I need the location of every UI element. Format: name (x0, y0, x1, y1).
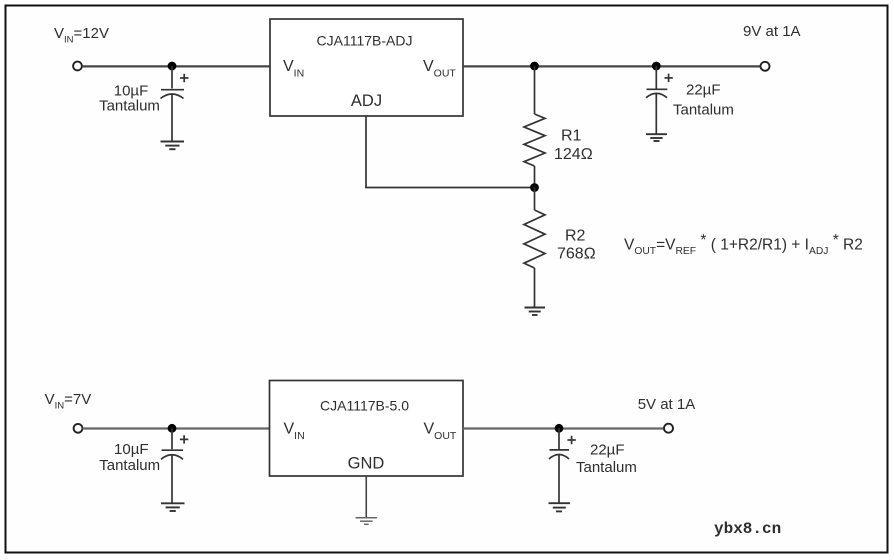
svg-text:Tantalum: Tantalum (673, 102, 734, 119)
wire: node C down to C2 (655, 66, 657, 89)
node A junction (C1 / input rail) (168, 62, 177, 71)
regulator U1 CJA1117B-ADJ (270, 19, 463, 116)
node C junction (C2 top) (652, 62, 661, 71)
svg-text:Tantalum: Tantalum (99, 98, 160, 115)
svg-text:GND: GND (348, 455, 385, 473)
pin label U1 ADJ (351, 92, 382, 110)
capacitor C1 10uF tantalum (161, 74, 189, 99)
wire: C4 to ground (558, 455, 560, 503)
node label "9V at 1A" (743, 23, 801, 40)
wire: C3 to ground (171, 455, 173, 503)
pin label U2 VIN (284, 420, 305, 442)
ground (C1) (161, 142, 185, 150)
value label R2 "R2 768ohm" (557, 228, 596, 263)
node F junction (C4 top) (555, 424, 564, 433)
pin label U2 GND (348, 455, 385, 473)
pin label U1 VOUT (423, 58, 456, 80)
svg-text:CJA1117B-ADJ: CJA1117B-ADJ (317, 32, 413, 48)
svg-text:5V at 1A: 5V at 1A (638, 396, 696, 413)
wire: node F down to C4 (558, 428, 560, 449)
ground (C3) (161, 503, 185, 511)
regulator U2 CJA1117B-5.0 (270, 381, 464, 477)
output terminal J2 (761, 62, 770, 71)
node E junction (C3 / input rail 2) (168, 424, 177, 433)
wire: C2 to ground (655, 94, 657, 134)
svg-text:R1: R1 (561, 128, 582, 145)
wire: C1 to ground (171, 95, 173, 142)
value label R1 "R1 124ohm" (554, 128, 593, 164)
ground (C4) (549, 503, 571, 511)
svg-text:R2: R2 (565, 228, 586, 245)
node B junction (R1 top) (530, 62, 539, 71)
svg-text:ybx8.cn: ybx8.cn (714, 520, 781, 538)
wire: input terminal to U1 VIN (82, 65, 270, 67)
svg-text:Tantalum: Tantalum (99, 457, 160, 474)
capacitor C2 22uF tantalum (646, 74, 673, 98)
wire: terminal J3 to U2 VIN (83, 427, 271, 429)
value label C2 "22uF Tantalum" (673, 82, 734, 119)
svg-text:Tantalum: Tantalum (576, 459, 637, 476)
wire: U2 GND pin down (365, 476, 367, 517)
resistor R2 768ohm (524, 210, 545, 268)
svg-text:ADJ: ADJ (351, 92, 382, 110)
resistor R1 124ohm (524, 114, 545, 166)
capacitor C3 10uF tantalum (161, 435, 188, 459)
input terminal J1 (73, 62, 82, 71)
ground (U2 GND) (356, 518, 377, 525)
wire: U1 VOUT to output terminal (463, 65, 761, 67)
svg-text:768Ω: 768Ω (557, 246, 596, 263)
wire: node D down to R2 (534, 188, 536, 211)
wire: junction A down to C1 (171, 66, 173, 89)
wire: R2 bottom to ground (534, 268, 536, 307)
svg-text:22µF: 22µF (686, 82, 721, 99)
formula VOUT=VREF*(1+R2/R1)+IADJ*R2 (624, 232, 863, 257)
capacitor C4 22uF tantalum (549, 436, 576, 459)
wire: ADJ horizontal to node D (365, 187, 534, 189)
wire: node E down to C3 (171, 428, 173, 449)
svg-text:CJA1117B-5.0: CJA1117B-5.0 (320, 398, 409, 414)
svg-text:9V at 1A: 9V at 1A (743, 23, 801, 40)
node VIN2 label "VIN=7V" (45, 391, 92, 412)
input terminal J3 (74, 424, 83, 433)
wire: U2 VOUT to output terminal (463, 427, 664, 429)
output terminal J4 (664, 424, 673, 433)
svg-text:10µF: 10µF (114, 441, 149, 458)
value label C1 "10uF Tantalum" (99, 83, 160, 115)
node label "5V at 1A" (638, 396, 696, 413)
ground (R2) (525, 308, 546, 316)
watermark ybx8.cn (714, 520, 781, 538)
value label C4 "22uF Tantalum" (576, 441, 637, 476)
ground (C2) (646, 134, 667, 141)
wire: U1 ADJ pin down (365, 116, 367, 188)
value label C3 "10uF Tantalum" (99, 441, 160, 474)
svg-text:22µF: 22µF (590, 441, 625, 458)
pin label U2 VOUT (424, 420, 457, 442)
wire: node B down to R1 (534, 66, 536, 114)
node VIN1 label "VIN=12V" (54, 25, 109, 46)
node D junction (R1/R2/ADJ) (530, 183, 539, 192)
pin label U1 VIN (283, 58, 304, 80)
svg-text:124Ω: 124Ω (554, 146, 593, 163)
wire: R1 bottom to node D (534, 166, 536, 188)
